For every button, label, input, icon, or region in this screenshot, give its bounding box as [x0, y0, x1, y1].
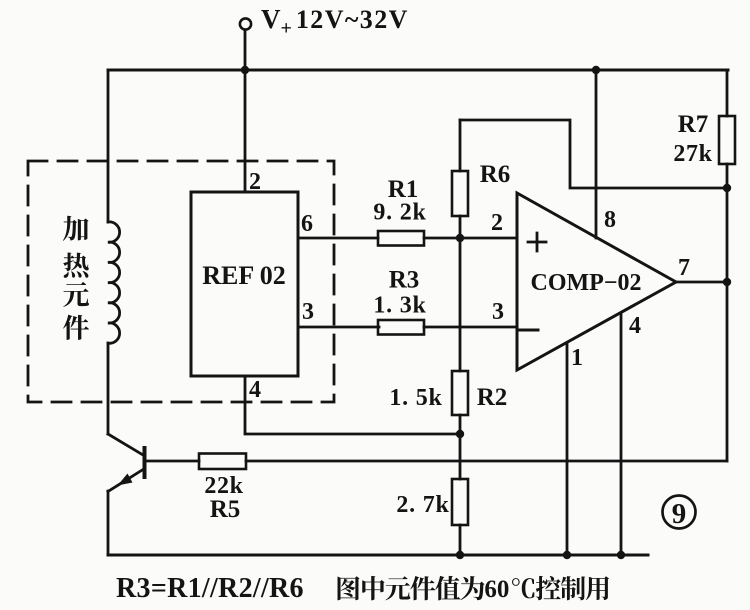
- junction dot at V+ on rail: [241, 66, 249, 74]
- pin 8 wire from rail to triangle: [595, 70, 598, 238]
- junction dot node pin2: [456, 234, 464, 242]
- wire R6 bottom lead: [459, 216, 462, 238]
- junction dot pin8 branch on rail: [592, 66, 600, 74]
- transistor Q1 base bar: [143, 448, 147, 477]
- svg-text:1: 1: [571, 345, 583, 371]
- svg-text:27k: 27k: [673, 141, 712, 167]
- transistor Q1 emitter arrow: [118, 474, 133, 486]
- wire 2.7k top lead: [459, 434, 462, 479]
- pin 6 wire to R1: [298, 237, 378, 240]
- svg-text:2: 2: [249, 169, 261, 195]
- svg-text:4: 4: [249, 377, 261, 403]
- svg-text:2. 7k: 2. 7k: [396, 492, 449, 518]
- wire right feedback vertical: [726, 188, 729, 461]
- wire R1 to comparator pin 2: [424, 237, 517, 240]
- svg-text:R5: R5: [210, 496, 241, 523]
- svg-text:7: 7: [678, 255, 690, 281]
- svg-text:8: 8: [604, 207, 616, 233]
- svg-text:R7: R7: [678, 111, 709, 138]
- pin 1 wire to bottom rail: [566, 343, 569, 555]
- stepped wire R6 top to R7 bottom: [460, 120, 727, 188]
- resistor R5 body: [199, 454, 246, 470]
- svg-text:6: 6: [301, 211, 313, 237]
- junction dot pin4 bottom: [617, 551, 625, 559]
- svg-text:REF 02: REF 02: [202, 261, 286, 290]
- junction dot node R2 bottom: [456, 430, 464, 438]
- figure number 9 circled: [663, 496, 696, 529]
- wire terminal to top rail: [244, 30, 247, 70]
- plus input symbol: [528, 233, 546, 251]
- wire coil to transistor collector: [107, 343, 110, 434]
- svg-text:3: 3: [492, 299, 504, 325]
- resistor R7 body: [719, 116, 735, 164]
- minus input symbol: [519, 329, 538, 332]
- svg-text:60: 60: [484, 576, 509, 603]
- heater coil (heating element): [108, 222, 120, 343]
- wire R6 node down to R2: [459, 238, 462, 371]
- wire 2.7k bottom lead: [459, 525, 462, 555]
- junction dot pin7 node: [723, 278, 731, 286]
- resistor R2 body: [452, 371, 468, 415]
- svg-text:R6: R6: [480, 161, 511, 188]
- wire emitter to bottom rail: [107, 491, 110, 555]
- wire R2 bottom lead: [459, 415, 462, 434]
- pin 2 wire (REF02 top): [244, 70, 247, 192]
- label 热: [63, 253, 89, 278]
- svg-text:3: 3: [302, 299, 314, 325]
- dashed enclosure box (heating element): [28, 161, 334, 402]
- transistor Q1 emitter lead: [108, 470, 143, 492]
- svg-text:9: 9: [672, 498, 687, 530]
- wire R7 bottom lead: [726, 164, 729, 188]
- junction dot pin1 bottom: [563, 551, 571, 559]
- wire R7 top lead: [726, 70, 729, 116]
- wire bottom ground rail: [108, 554, 648, 557]
- wire left drop from rail to coil: [107, 70, 110, 222]
- svg-text:COMP−02: COMP−02: [531, 270, 642, 296]
- svg-text:4: 4: [629, 313, 641, 339]
- svg-text:9. 2k: 9. 2k: [373, 200, 426, 226]
- resistor R6 body: [452, 171, 468, 216]
- junction dot R7 bottom node: [723, 184, 731, 192]
- svg-text:R3=R1//R2//R6: R3=R1//R2//R6: [116, 573, 304, 604]
- label 元: [63, 282, 89, 307]
- resistor R1 body: [378, 231, 424, 246]
- IC REF 02 box: [191, 192, 298, 376]
- svg-text:2: 2: [491, 210, 503, 236]
- label 加: [63, 216, 89, 241]
- pin 7 output wire: [675, 281, 727, 284]
- svg-text:1. 3k: 1. 3k: [373, 293, 426, 319]
- wire base to R5: [145, 460, 199, 463]
- resistor 2.7k body: [452, 479, 468, 525]
- svg-text:V+12V~32V: V+12V~32V: [261, 4, 409, 40]
- junction dot 2.7k bottom: [456, 551, 464, 559]
- pin 3 wire to R3: [298, 326, 379, 329]
- op-amp COMP-02 triangle: [517, 193, 676, 370]
- power terminal V+: [240, 18, 251, 29]
- wire R3 to comparator pin 3: [424, 326, 517, 329]
- label 件: [63, 315, 89, 340]
- svg-text:R3: R3: [389, 267, 420, 294]
- pin 4 wire down from REF02: [245, 376, 460, 434]
- transistor Q1 collector lead: [108, 434, 143, 455]
- wire top supply rail: [108, 69, 728, 72]
- resistor R3 body: [378, 320, 424, 335]
- pin 4 wire to bottom rail: [620, 313, 623, 555]
- svg-text:R2: R2: [477, 384, 508, 411]
- caption 图中元件值为60℃控制用: [338, 576, 360, 600]
- svg-text:1. 5k: 1. 5k: [389, 385, 442, 411]
- wire R5 to feedback vertical: [246, 460, 727, 463]
- wire R6 top lead: [459, 120, 462, 171]
